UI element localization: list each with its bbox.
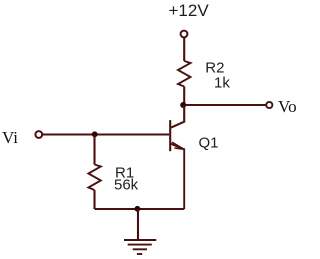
svg-text:Q1: Q1 <box>199 135 219 152</box>
wire junction to R1 top <box>93 135 95 165</box>
ground bar 4 <box>137 253 142 255</box>
transistor Q1 emitter lead <box>171 144 184 209</box>
resistor R1 <box>88 165 100 191</box>
wire supply terminal to R2 top <box>183 38 185 61</box>
ground bar 3 <box>133 248 147 250</box>
wire collector node to Vo terminal <box>184 104 266 106</box>
transistor Q1 base bar <box>169 120 171 151</box>
node ground junction <box>135 206 141 212</box>
transistor Q1 emitter arrow barb upper <box>172 142 184 149</box>
wire ground rail (R1 to emitter) <box>95 208 185 210</box>
node collector junction <box>180 102 186 108</box>
terminal (+12V supply) <box>181 31 188 38</box>
node base/R1 junction <box>92 131 98 137</box>
terminal Vo <box>266 102 272 108</box>
ground lead wire <box>137 209 139 240</box>
svg-text:56k: 56k <box>114 176 139 193</box>
svg-text:+12V: +12V <box>169 1 210 20</box>
transistor Q1 base wire <box>43 133 170 135</box>
terminal Vi <box>35 131 42 138</box>
svg-text:1k: 1k <box>214 75 230 92</box>
svg-text:Vi: Vi <box>2 128 18 147</box>
transistor Q1 emitter arrow barb lower <box>174 148 183 149</box>
wire R1 bottom to ground rail <box>93 190 95 209</box>
wire R2 bottom to collector node <box>183 87 185 106</box>
resistor R2 <box>178 61 191 87</box>
ground bar 1 <box>124 239 156 241</box>
ground bar 2 <box>128 244 152 246</box>
svg-text:Vo: Vo <box>278 97 297 116</box>
transistor Q1 collector lead <box>171 105 184 128</box>
